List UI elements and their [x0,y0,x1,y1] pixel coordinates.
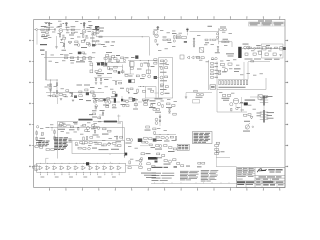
pa right wires [243,62,245,80]
dense text block A [54,136,58,139]
mid dark cluster G [128,79,131,82]
footswitch cluster [141,153,145,155]
bus branch [45,79,58,81]
tube V1B [82,29,86,33]
logic box dark junction [125,153,128,156]
r3 lower cluster A [94,126,97,128]
fx internal wire [163,62,165,92]
tone wire h1 [96,62,126,64]
label dash 1 [40,44,47,45]
heater labels [263,95,268,98]
revision table [249,22,285,26]
mid box x144 [142,90,145,92]
end cluster ps [280,47,283,50]
fx loop box outline [159,58,173,98]
bleeder resistor [275,47,278,48]
junction dots tone [53,91,56,94]
ribbon connector grid [208,60,210,90]
r3 lower cluster E dark [138,138,142,142]
channel B label boxes [95,26,99,28]
box above wire x67 [66,90,69,92]
small top bits [79,98,83,101]
pot cluster sw [42,132,44,135]
heater symbol B [65,23,68,25]
region2 bottom cluster [106,55,109,57]
sw cluster 1 [59,125,62,127]
output tube V6 partial [230,103,233,106]
bottom row region3 arrows [187,56,194,59]
tone dense dark cluster [97,63,100,66]
cross mark right [118,115,120,122]
bias drop [185,93,187,97]
cathode network V1B [83,35,84,38]
left lower boxes [46,149,49,151]
notes block 1 [152,172,162,175]
rectifier resistor [249,47,252,48]
sw bottom comps [83,137,84,140]
border zone ticks right [285,40,287,42]
ps below comps 2 [253,53,256,55]
r3r cluster A [157,102,160,105]
preamp out wire 2 [93,92,95,98]
tone cluster 3 dark [85,89,88,91]
power amp box outline [216,62,218,90]
mid box x152 [150,90,153,92]
small box x70 [69,41,72,43]
ot primary wire [239,103,244,105]
r3 small left [93,113,96,115]
r3 cluster C [122,100,125,102]
bottom wire stubs [154,182,156,183]
chain dark block [86,162,89,165]
dark pair x80 [78,52,81,55]
ot connector dark [244,102,248,105]
dark mark left r4 [155,161,158,163]
plate wire [86,29,95,31]
revision table caption [258,20,264,23]
upper box bottom [193,100,200,103]
wire to power section [190,31,219,33]
grid stopper cluster [41,35,48,38]
r3 cluster B [104,100,107,102]
tap labels [267,111,275,114]
left edge circles col [36,126,38,128]
ps enclosure rect [262,44,284,58]
cap C30 [254,47,256,49]
strip B stub [99,114,101,119]
tone row box 2 [109,57,112,59]
junction channel B [142,36,143,37]
wire pair right of switch area [216,157,230,159]
heater symbol F [186,29,189,31]
logic box label [99,148,109,151]
resistor R1 [41,29,44,31]
under-triangle labels [41,176,45,179]
wire drop x149 [148,37,150,56]
tone row box 4 [121,57,124,59]
logic box contents 2 [78,147,81,149]
bottom dark dot x122 [121,96,123,101]
wire input [38,29,55,31]
opto stage 1 [39,166,42,170]
bottom bits x143 [142,99,145,101]
bottom left labels [36,139,43,142]
r3r diodes [169,109,171,111]
grid leak vline [56,36,58,46]
tone row box 1 [104,57,107,59]
r3 dark bar [114,98,116,103]
bias cluster [197,94,200,96]
r3r comp c [173,113,176,115]
wire secondary [242,47,285,49]
opto stage 2 [46,166,49,170]
filter cap [270,47,272,49]
mains connector block [238,47,241,58]
r3 cluster right edge [146,126,150,128]
notes block 2 [180,170,189,173]
mid cluster r80 [112,80,122,82]
filter resistor [257,47,260,48]
mid box outline right [155,87,157,99]
transformer T1 [244,46,247,49]
opto stage 11 [111,166,114,170]
wire stub left [36,30,38,45]
decoupling caps [50,83,52,85]
r4 cluster B [169,147,172,149]
ps text below [245,58,253,61]
lower cluster A [222,94,225,96]
mid wire h2 [128,60,157,62]
series resistor Ra [163,39,166,41]
switch enclosure box [57,121,59,158]
r3 lower cluster D [127,138,130,140]
r4 cluster E [177,163,180,165]
xfmr label strip dark [148,157,158,160]
wire fuse [219,41,233,43]
input divider bits [42,35,45,37]
mid dark blob top [135,55,138,58]
r4 small box pair [198,162,201,164]
mid wire h86 [138,86,156,88]
fx left stubs [155,60,159,62]
revision table row 1 text [249,22,260,25]
border zone ticks left [32,40,34,42]
cluster x84 [81,40,84,42]
left of fx boxes [154,59,157,61]
junction row right [217,39,218,40]
tone row box 3 [114,58,117,60]
border zone ticks top [49,18,51,20]
switch drop 1 [51,128,53,132]
bias wire [186,92,212,94]
title block left row texts [237,167,242,170]
power labels [226,52,234,55]
heater symbol C [83,23,86,25]
fuse boxes [222,41,225,43]
scattered value labels [45,21,48,24]
r3 lower cluster B [103,128,106,130]
opto stage 6 [75,166,78,170]
opto stage 10 [104,166,107,170]
r4 cluster C [157,153,160,155]
r3 lower cluster C [116,136,117,139]
sw cluster 4 [83,124,86,126]
mid cluster under G [127,88,128,91]
dense text block B [68,138,71,141]
chevron side labels [45,22,47,25]
pa labels [234,67,241,70]
title block address text [259,176,267,177]
opto stage 9 [96,166,99,170]
notes header row [152,167,163,168]
mid wire h3 [124,73,134,75]
extra labels mid block [98,74,102,77]
opto stage 3 [54,166,57,170]
resistor R5 [71,29,74,31]
channel B resistors [94,33,95,36]
tone cluster below 1 [99,69,102,72]
r4 text box small [177,144,189,150]
series caps input [48,28,50,30]
wire y77 [94,77,112,79]
speaker jack [245,125,249,129]
label dash 2 [40,50,45,51]
heater symbol D [95,28,98,30]
switch wire stub [57,98,59,104]
coupling cap C2 [66,29,68,31]
r3r cluster B [167,103,170,105]
mid chain x148 [148,61,150,75]
filter resistor 2 [266,47,269,48]
rail comp right [90,63,93,66]
left lower comps [35,146,38,148]
ot interwinding wire [263,106,265,111]
input jack J1 [36,29,38,31]
speaker taps cluster [244,114,247,116]
lower ps box edge [216,90,218,113]
resistor pair boxes [176,35,180,37]
long bottom wire [151,183,237,185]
cluster x76 [75,41,78,43]
mid cluster bottom row [125,75,128,77]
grounded pair B [100,78,101,81]
fx cluster 4 [161,84,164,86]
chain out jack [139,159,142,162]
opto chain box [37,163,126,172]
wire stage1-2 [63,29,81,31]
jack box mid [130,62,134,67]
ground mid [95,41,97,44]
chain out comps [129,161,130,164]
ps small comp [251,61,254,62]
r3 cluster A [93,100,96,103]
channel B cluster [96,31,99,34]
rail resistor 2 [70,57,73,59]
ot vertical wire [241,97,243,112]
title block address row lines [255,175,285,177]
right edge stack [215,144,219,146]
lower left cluster row3r wire [154,134,176,136]
fx cluster 3 [160,76,163,79]
rail resistor 1 [64,57,67,59]
rail tube A [82,56,86,60]
made-in text rows [141,172,156,175]
ch select box [60,123,63,126]
fx cluster 1 [161,60,164,62]
chain input comps [35,165,37,167]
mid vbox 1 [141,63,142,66]
bias comp 1 [194,90,197,92]
output label rows [245,99,256,102]
input labels above [44,26,48,29]
junction ps [251,47,254,50]
sw cluster 5 [92,125,95,127]
lower right small comps [216,142,219,144]
tone cluster below 3 [114,66,117,68]
sw cluster 2 [70,126,73,128]
bottom row region3 box [180,55,184,59]
footswitch upper bits [142,141,145,143]
opto stage 12 [118,166,121,170]
standby switch boxes [220,29,223,31]
logic box contents 1 [75,142,78,145]
chain tick mid [109,162,111,164]
title block drawing number row [261,181,263,184]
title block size row text [256,178,261,181]
presence pot [102,112,104,115]
rail cap 1 [77,57,78,60]
diode chain D1-D3 [193,38,195,40]
cluster mid small [106,41,109,42]
title block left rows [237,169,256,171]
pot wiper wire [92,35,94,44]
title block dark row [237,181,245,182]
r3 cluster D [135,98,137,108]
chain right cluster [147,163,150,165]
grid top boxes [197,57,200,59]
relay text block rows [39,140,42,143]
ps below comps 1 [245,53,248,55]
cathode V2A [155,40,156,43]
above-notes marks [174,166,178,168]
opto stage 8 [89,166,92,170]
sw cluster 3 [78,127,79,130]
left edge comps [36,132,37,135]
title block logo swoosh [257,169,267,172]
resistor network below [96,41,99,42]
cross marks [184,41,187,43]
tone cluster below 2 [108,67,109,70]
r3 cluster E [144,100,148,102]
wire preamp out [46,91,104,93]
r3r labels top [155,97,163,100]
revision table row 2 text [250,24,258,27]
pa tube [224,68,227,71]
heater symbol A [48,23,51,25]
mix resistors [71,32,74,33]
logic box contents 3 [98,143,101,145]
r4 cluster A [156,145,159,147]
title block company text [268,169,275,170]
border zone ticks bottom [49,188,51,190]
rail tube B [88,56,92,60]
bus wire pair [44,51,46,80]
sw chain [54,131,55,134]
lower left cluster row3r comps [156,136,159,138]
fx cluster 2 [161,67,162,70]
logic box outline [72,141,125,154]
r4 cluster D [164,160,167,162]
heater symbol E [156,27,159,29]
volume pot P1 [92,32,94,35]
strip row small marks [89,113,93,116]
diodes mains [217,46,219,48]
series resistor Rb [167,39,170,41]
title block scale row [261,183,263,187]
dark label strip A [78,119,92,121]
lower right comps 2 [216,151,219,153]
pilot lamp [216,33,218,35]
grid top circles [211,57,213,59]
r3r chain [159,114,161,126]
rail labels [76,60,85,63]
bottom cluster x129 [129,97,132,99]
ps below comps 3 [265,53,268,56]
ps wires lower [248,61,270,63]
wire channel B [96,36,149,38]
screen resistor labels [219,86,246,89]
heater wire [250,96,268,98]
wire standby [218,28,220,44]
dropper chain [56,80,58,98]
chain input jack [32,166,35,169]
drop cluster 1 [53,92,55,95]
bright cap [89,27,91,29]
main switch wire [48,127,125,129]
component row right [205,39,208,40]
tube V2A [155,34,159,38]
title block left dividers [243,168,245,174]
dark label strip B [104,121,117,123]
relay box K1 [182,36,186,39]
pa cluster boxes [220,63,224,65]
heater transformer box [258,95,262,99]
output transformer upper winding [263,96,265,106]
opto stage 5 [68,166,71,170]
wire b+ rail [44,57,95,59]
crystal box X1 [199,48,204,53]
mid cluster near k [112,92,115,94]
divider stack [174,36,175,39]
cap above wire x50 [49,86,52,89]
mixer cluster mid [63,37,66,39]
grounded pair A [95,78,96,81]
resistor R2 [46,32,49,33]
opto stage 4 [61,166,64,170]
title block outline [237,168,286,188]
logic box tick [109,154,111,156]
tone cluster 4 [91,91,94,93]
mid vbox x137 [137,89,138,92]
drop cluster 2 [59,93,62,95]
notes box NB1 [193,132,213,144]
chain stub top [45,158,47,163]
border frame [34,20,285,188]
fx cluster 5 [161,92,164,95]
resistor R1b [46,29,49,30]
relay box K2 [210,85,216,89]
tube V1A [59,29,63,33]
